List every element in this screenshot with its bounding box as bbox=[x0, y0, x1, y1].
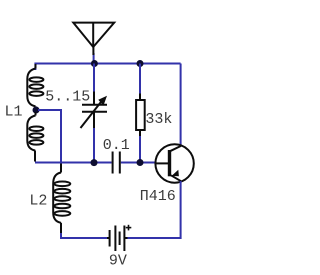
wire: varcap bottom lead bbox=[93, 128, 95, 163]
svg-text:0.1: 0.1 bbox=[103, 137, 130, 154]
wire: resistor top lead bbox=[139, 64, 141, 94]
wire: right vertical to collector bbox=[180, 64, 182, 147]
svg-text:5..15: 5..15 bbox=[45, 89, 90, 106]
svg-text:L2: L2 bbox=[29, 192, 47, 209]
battery GB1 bbox=[107, 226, 128, 252]
wire: antenna lead lower part bbox=[93, 53, 95, 64]
base bar bbox=[168, 150, 171, 176]
wire: top horizontal bus bbox=[35, 64, 180, 71]
node: L1 tap junction bbox=[33, 107, 40, 114]
wire: varcap top lead bbox=[93, 64, 95, 92]
battery plus sign bbox=[126, 225, 132, 231]
svg-text:33k: 33k bbox=[145, 111, 172, 128]
node: resistor bottom junction bbox=[137, 159, 144, 166]
base lead bbox=[155, 162, 168, 164]
wire: tap to L2 (crosses middle wire, no junction) bbox=[38, 110, 61, 164]
emitter arrow (PNP, points to base) bbox=[172, 170, 179, 177]
inductor L1 lower half bbox=[27, 112, 43, 162]
wire: middle right segment to base bbox=[121, 162, 156, 164]
capacitor 0.1 plates bbox=[113, 152, 120, 174]
wire: L2 to battery bbox=[61, 233, 108, 238]
wire: emitter vertical bbox=[127, 181, 181, 238]
arrowhead of variable capacitor bbox=[98, 96, 107, 106]
emitter lead bbox=[171, 175, 181, 181]
node: antenna / top bus junction bbox=[91, 60, 98, 67]
inductor L1 upper half bbox=[27, 64, 43, 110]
transistor Q1 П416 bbox=[155, 144, 193, 182]
svg-text:L1: L1 bbox=[5, 104, 23, 121]
node: varcap bottom junction bbox=[91, 159, 98, 166]
antenna W1 bbox=[73, 23, 114, 55]
inductor L2 bbox=[53, 164, 70, 235]
node: resistor top junction bbox=[137, 60, 144, 67]
svg-text:9V: 9V bbox=[109, 252, 127, 269]
wire: middle left segment bbox=[35, 162, 112, 164]
variable capacitor C1 bbox=[81, 91, 108, 129]
wire: resistor bottom lead bbox=[139, 136, 141, 163]
resistor R1 33k bbox=[136, 93, 145, 137]
collector lead bbox=[170, 146, 181, 151]
svg-text:П416: П416 bbox=[140, 188, 176, 205]
